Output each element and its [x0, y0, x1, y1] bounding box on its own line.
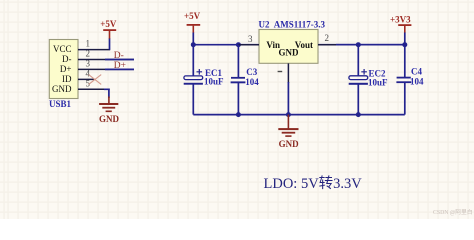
pin 5 GND line — [78, 88, 110, 90]
svg-text:AMS1117-3.3: AMS1117-3.3 — [274, 19, 326, 29]
svg-text:ID: ID — [62, 74, 72, 84]
svg-text:U2: U2 — [259, 19, 270, 29]
wire +5V to pin1 — [109, 39, 111, 50]
connector USB1 body — [49, 40, 78, 99]
svg-text:CSDN @阿里白: CSDN @阿里白 — [433, 208, 473, 216]
wire top rail — [193, 44, 404, 46]
watermark CSDN — [433, 208, 473, 216]
wire D+ net — [105, 68, 134, 70]
wire EC1 top — [192, 45, 194, 76]
svg-text:C3: C3 — [246, 67, 257, 77]
svg-text:VCC: VCC — [53, 44, 72, 54]
svg-text:D-: D- — [114, 51, 124, 61]
capacitor C4 — [396, 67, 424, 87]
capacitor EC1 — [184, 68, 224, 86]
wire +5V down to rail — [192, 33, 194, 45]
pin 2 (Vout) of U2 — [318, 44, 338, 46]
svg-text:1: 1 — [86, 39, 91, 49]
ground symbol GND (USB) — [99, 97, 120, 124]
svg-text:10uF: 10uF — [204, 76, 224, 86]
pin 2 D- line — [78, 59, 134, 61]
svg-text:10uF: 10uF — [368, 78, 388, 88]
svg-text:D+: D+ — [60, 64, 72, 74]
wire C3 top — [237, 45, 239, 77]
svg-text:D-: D- — [62, 54, 72, 64]
svg-text:+5V: +5V — [184, 11, 201, 21]
pin 4 ID line — [78, 78, 95, 80]
ground symbol GND (main) — [278, 115, 299, 149]
pin 1 VCC line — [78, 49, 110, 51]
power port +3V3 — [390, 15, 411, 34]
wire C4 top (from +3V3 junction) — [404, 45, 406, 77]
svg-text:104: 104 — [245, 77, 259, 87]
wire C4 bottom — [404, 83, 406, 115]
no-ERC cross on pin 4 — [89, 75, 102, 85]
junction bottom EC2 — [356, 112, 361, 117]
wire U2 GND to rail — [287, 82, 289, 115]
junction bottom GND — [286, 112, 291, 117]
svg-text:USB1: USB1 — [49, 99, 72, 109]
svg-text:+3V3: +3V3 — [390, 15, 411, 25]
wire pin5 to ground — [104, 89, 109, 98]
junction at C3 tap — [236, 42, 241, 47]
power port +5V (main) — [184, 11, 201, 33]
svg-text:GND: GND — [99, 114, 120, 124]
svg-text:GND: GND — [279, 139, 300, 149]
capacitor EC2 — [349, 69, 388, 88]
pin 3 D+ line — [78, 68, 134, 70]
op-amp U2 AMS1117-3.3 body — [259, 30, 318, 64]
junction at +5V / EC1 — [191, 42, 196, 47]
junction bottom C3 — [236, 112, 241, 117]
USB1 designator — [49, 99, 72, 109]
svg-text:GND: GND — [52, 84, 72, 94]
wire Vout rail — [336, 44, 405, 46]
junction at EC2 tap — [356, 42, 361, 47]
pin 1 number of U2 (rotated) — [278, 71, 283, 72]
svg-text:LDO: 5V转3.3V: LDO: 5V转3.3V — [264, 175, 363, 192]
wire EC2 bottom — [357, 84, 359, 114]
svg-text:D+: D+ — [114, 61, 126, 71]
title text LDO: 5V to 3.3V — [264, 175, 363, 192]
svg-text:2: 2 — [325, 33, 330, 43]
wire EC1 bottom — [192, 84, 194, 114]
capacitor C3 — [231, 67, 260, 87]
svg-text:GND: GND — [279, 48, 300, 58]
regulator U2 designator and value — [259, 19, 326, 29]
wire C3 bottom — [237, 83, 239, 115]
wire EC2 top — [357, 45, 359, 76]
svg-text:C4: C4 — [411, 67, 422, 77]
svg-text:104: 104 — [410, 76, 424, 86]
wire bottom rail — [193, 114, 404, 116]
wire D- net — [105, 59, 134, 61]
junction at +3V3 / C4 — [402, 42, 407, 47]
pin 3 (Vin) of U2 — [238, 44, 259, 46]
svg-text:3: 3 — [248, 34, 253, 44]
power port +5V (USB) — [100, 19, 117, 39]
wire +3V3 to rail — [404, 33, 406, 45]
svg-text:+5V: +5V — [100, 19, 117, 29]
pin 1 (GND) of U2 — [287, 63, 289, 83]
